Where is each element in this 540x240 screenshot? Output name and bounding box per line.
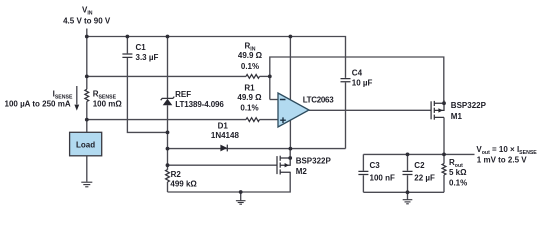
svg-text:C4: C4 <box>352 69 363 78</box>
svg-text:1 mV to 2.5 V: 1 mV to 2.5 V <box>477 155 527 164</box>
svg-text:22 µF: 22 µF <box>414 173 435 182</box>
svg-text:49.9 Ω: 49.9 Ω <box>237 93 262 102</box>
svg-text:100 µA to 250 mA: 100 µA to 250 mA <box>5 100 71 109</box>
svg-text:LT1389-4.096: LT1389-4.096 <box>175 100 224 109</box>
svg-text:1N4148: 1N4148 <box>211 131 240 140</box>
svg-text:3.3 µF: 3.3 µF <box>136 53 159 62</box>
svg-text:LTC2063: LTC2063 <box>303 96 335 105</box>
svg-text:C2: C2 <box>414 161 425 170</box>
svg-text:D1: D1 <box>218 122 229 131</box>
svg-text:R1: R1 <box>244 83 255 92</box>
svg-text:Load: Load <box>76 141 95 150</box>
svg-text:C3: C3 <box>370 161 381 170</box>
svg-text:49.9 Ω: 49.9 Ω <box>238 51 263 60</box>
svg-text:R2: R2 <box>171 170 182 179</box>
svg-text:M1: M1 <box>451 112 463 121</box>
svg-text:100 nF: 100 nF <box>370 173 395 182</box>
svg-text:10 µF: 10 µF <box>352 79 373 88</box>
svg-text:100 mΩ: 100 mΩ <box>93 100 123 109</box>
svg-text:5 kΩ: 5 kΩ <box>449 168 467 177</box>
svg-text:499 kΩ: 499 kΩ <box>170 179 197 188</box>
svg-text:M2: M2 <box>296 167 308 176</box>
svg-text:0.1%: 0.1% <box>449 179 467 188</box>
svg-text:REF: REF <box>175 90 191 99</box>
svg-text:BSP322P: BSP322P <box>451 101 487 110</box>
svg-text:4.5 V to 90 V: 4.5 V to 90 V <box>63 17 111 26</box>
svg-text:0.1%: 0.1% <box>241 62 259 71</box>
svg-text:BSP322P: BSP322P <box>296 156 332 165</box>
svg-text:C1: C1 <box>136 43 147 52</box>
svg-text:0.1%: 0.1% <box>240 104 258 113</box>
